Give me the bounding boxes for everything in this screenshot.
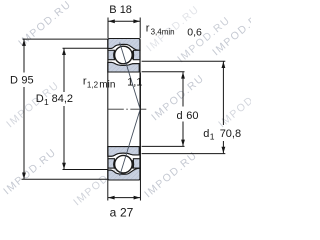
svg-text:0,6: 0,6	[187, 26, 202, 38]
dimension a arrow left	[108, 196, 115, 200]
dimension B extension right	[139, 18, 141, 39]
lower section left face	[107, 147, 109, 180]
dimension d1 line	[222, 62, 224, 126]
lower section right shoulder	[133, 159, 140, 168]
dimension d1 arrow down	[222, 147, 226, 154]
dimension d extension top	[142, 71, 185, 73]
dimension D extension top	[23, 38, 108, 40]
dimension D1 arrow down	[62, 163, 66, 170]
dimension a extension right	[139, 73, 141, 201]
dimension B extension left	[107, 18, 109, 39]
svg-text:1,1: 1,1	[127, 77, 142, 89]
svg-text:84,2: 84,2	[52, 93, 73, 105]
dimension D arrow up	[22, 39, 26, 46]
dimension a arrow right	[134, 196, 141, 200]
svg-text:1,2: 1,2	[87, 80, 99, 89]
bore edge left	[107, 72, 109, 147]
dimension d arrow down	[181, 140, 185, 147]
dimension B line	[108, 20, 140, 22]
upper section outer ring band	[108, 39, 140, 51]
upper section left face	[107, 39, 109, 73]
svg-text:d: d	[177, 110, 183, 122]
lower ball	[114, 155, 134, 173]
svg-text:95: 95	[21, 74, 33, 86]
upper section left shoulder	[108, 50, 114, 59]
svg-text:r: r	[146, 23, 150, 35]
dimension d extension bottom	[142, 145, 185, 147]
upper section right shoulder	[133, 50, 140, 59]
dimension D extension bottom	[22, 178, 108, 180]
svg-text:18: 18	[120, 4, 132, 16]
upper section right face	[139, 39, 141, 73]
dimension d1 extension bottom	[142, 153, 226, 155]
dimension B arrow left	[108, 19, 115, 23]
dimension a extension left	[107, 180, 109, 201]
svg-text:D: D	[36, 93, 44, 105]
dimension B arrow right	[133, 19, 140, 23]
dimension D line	[23, 39, 25, 72]
dimension D1 extension top	[63, 47, 108, 49]
upper ball	[114, 46, 134, 64]
lower section right face	[139, 147, 141, 180]
svg-text:1: 1	[210, 131, 215, 141]
svg-text:1: 1	[44, 97, 49, 107]
dimension d1 extension top	[142, 60, 226, 62]
svg-text:a: a	[110, 206, 117, 220]
dimension d1 arrow up	[222, 62, 226, 69]
lower section outer ring band	[108, 168, 140, 180]
dimension a line	[108, 197, 141, 199]
dimension d line	[182, 72, 184, 106]
dimension D1 line	[63, 49, 65, 93]
svg-text:min: min	[99, 80, 115, 91]
svg-text:60: 60	[186, 110, 198, 122]
bore edge right	[139, 72, 141, 147]
svg-text:B: B	[109, 4, 116, 16]
svg-text:d: d	[203, 128, 209, 140]
dimension D1 extension bottom	[63, 169, 108, 171]
centerline axis	[108, 108, 147, 110]
svg-text:D: D	[10, 74, 18, 86]
lower section inner ring band	[108, 147, 139, 157]
lower section left shoulder	[108, 159, 114, 168]
contact angle line	[120, 43, 141, 176]
dimension D arrow down	[22, 173, 26, 180]
svg-text:70,8: 70,8	[220, 128, 241, 140]
svg-text:3,4min: 3,4min	[151, 28, 175, 37]
dimension d arrow up	[181, 72, 185, 79]
svg-text:27: 27	[120, 206, 134, 220]
upper section inner ring band	[108, 62, 139, 72]
dimension D1 arrow up	[62, 49, 66, 56]
